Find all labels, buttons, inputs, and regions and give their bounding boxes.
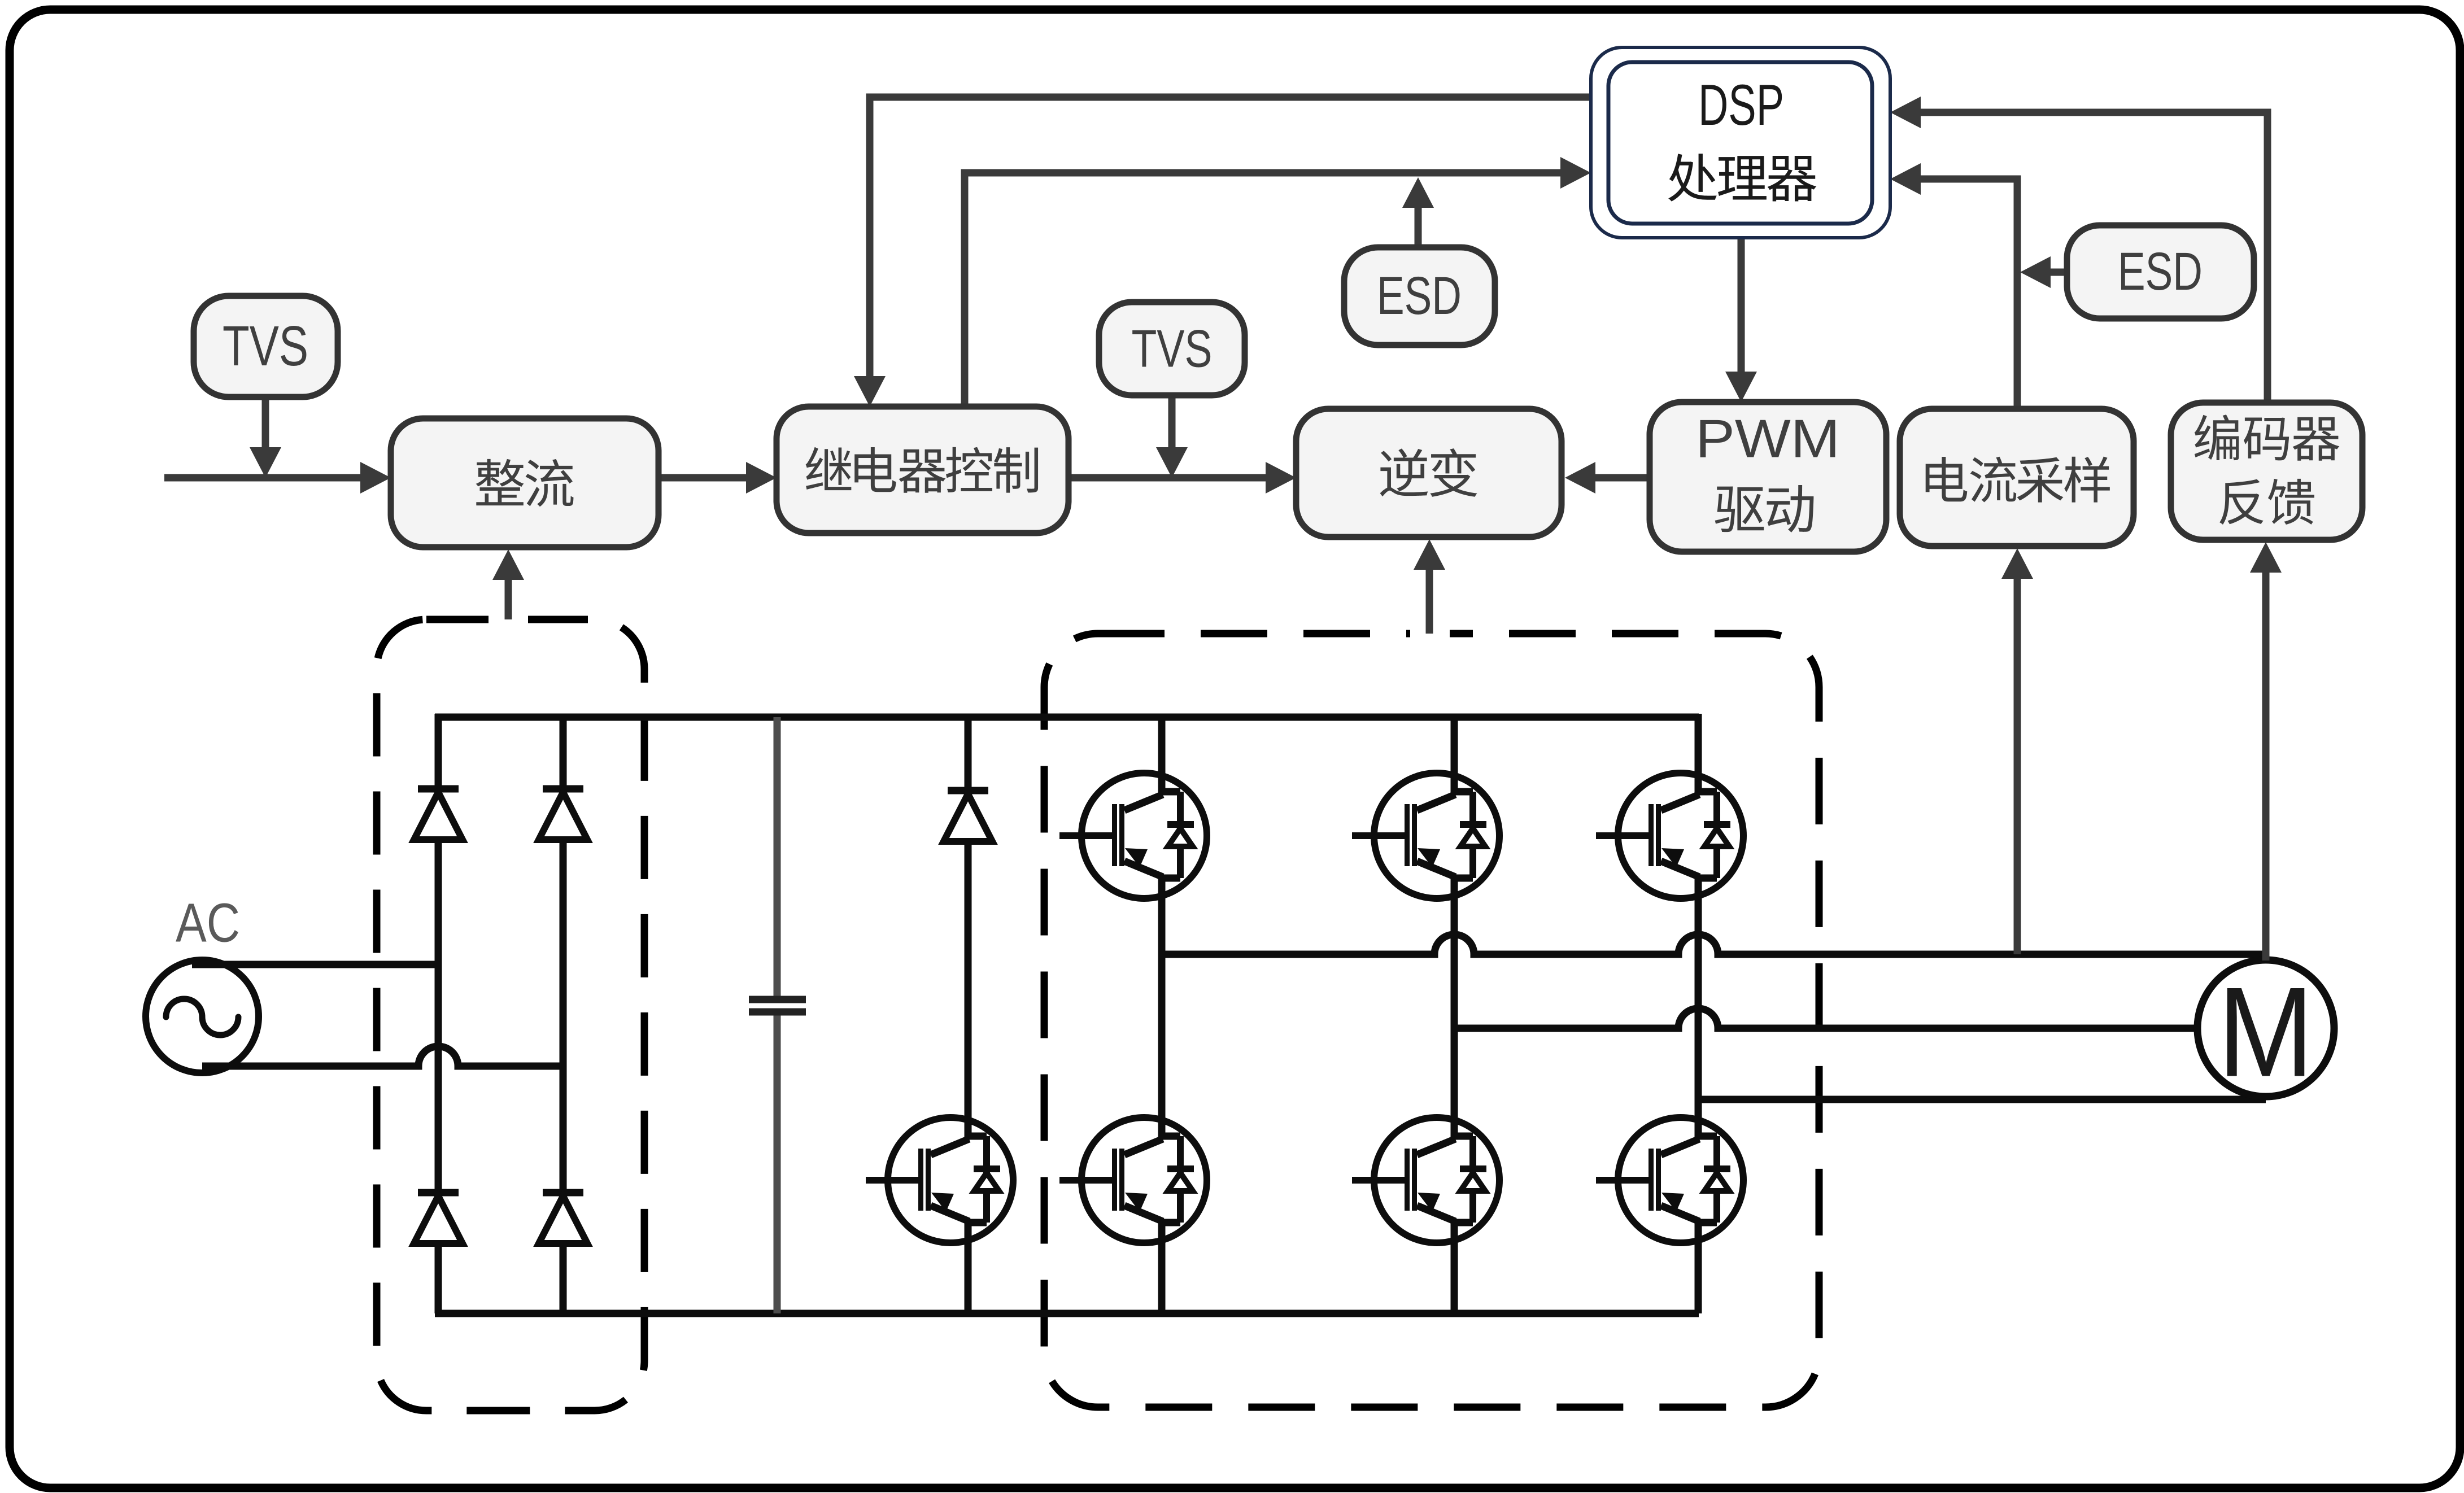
svg-text:TVS: TVS <box>1132 319 1213 378</box>
svg-text:ESD: ESD <box>2118 242 2203 302</box>
svg-text:DSP: DSP <box>1698 73 1784 137</box>
svg-text:M: M <box>2218 961 2314 1103</box>
svg-text:AC: AC <box>176 892 240 954</box>
svg-text:TVS: TVS <box>223 315 308 378</box>
svg-text:ESD: ESD <box>1377 266 1462 326</box>
svg-text:PWM: PWM <box>1695 409 1840 469</box>
